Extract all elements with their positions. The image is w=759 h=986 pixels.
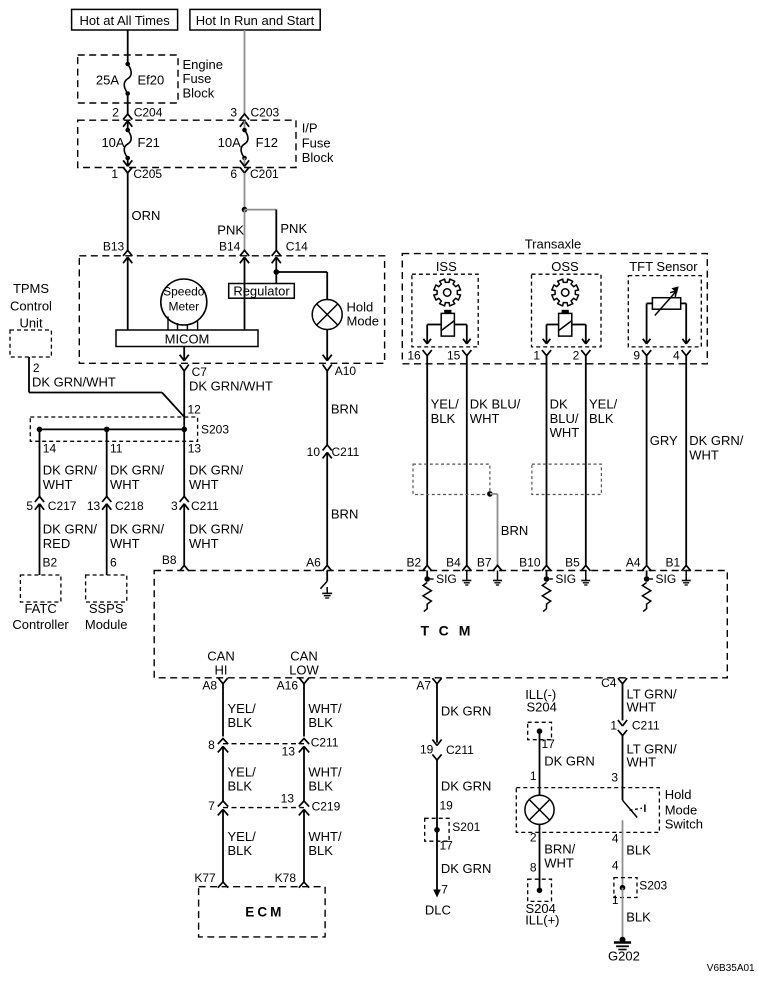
svg-text:YEL/: YEL/ [228, 829, 257, 844]
svg-text:YEL/: YEL/ [589, 397, 618, 412]
node Hot at All Times feed box [72, 9, 178, 30]
svg-text:WHT: WHT [550, 425, 580, 440]
wire TPMS pin 2 DK GRN/WHT [29, 357, 162, 393]
svg-text:G202: G202 [608, 949, 640, 964]
svg-text:13: 13 [87, 499, 101, 513]
svg-text:BLK: BLK [589, 411, 614, 426]
svg-text:WHT/: WHT/ [308, 701, 342, 716]
svg-text:A7: A7 [416, 679, 431, 693]
wire C218 to SSPS DK GRN/WHT [107, 504, 165, 575]
svg-text:16: 16 [407, 348, 421, 362]
svg-text:YEL/: YEL/ [228, 765, 257, 780]
node S203 tap 14 [37, 427, 43, 433]
svg-text:Engine: Engine [183, 57, 223, 72]
svg-text:Mode: Mode [347, 314, 380, 329]
svg-text:8: 8 [530, 861, 537, 875]
wire lamp to A10 [326, 330, 328, 361]
svg-text:B5: B5 [565, 556, 580, 570]
label CAN LOW [289, 649, 319, 678]
wire C211 to C219 WHT/BLK [304, 746, 342, 801]
svg-text:E: E [245, 905, 254, 920]
ground inside TCM at B7 [493, 571, 502, 586]
label TCM [421, 623, 471, 639]
wire ISS pin15 to TCM B4 DK BLU/WHT [467, 356, 521, 566]
connector C211 pins 8 and 13 [208, 736, 339, 759]
connector A10 [323, 355, 357, 378]
svg-text:C218: C218 [115, 499, 144, 513]
connector C219 pins 7 and 13 [208, 791, 341, 815]
connector TCM A16 [277, 678, 309, 692]
Engine Fuse Block dashed box [78, 55, 178, 103]
svg-text:A10: A10 [335, 364, 357, 378]
wire A8 to C211 YEL/BLK [223, 684, 256, 737]
OSS sensor wires to pins 1 and 2 [543, 325, 590, 344]
svg-text:ILL(+): ILL(+) [525, 913, 559, 928]
wire S203 to C217 DK GRN/WHT [40, 429, 98, 496]
wire C14 node to Hold Mode lamp [276, 272, 327, 300]
svg-text:4: 4 [612, 832, 619, 846]
svg-text:Hold: Hold [347, 300, 374, 315]
svg-text:1: 1 [612, 893, 619, 907]
svg-text:DK GRN: DK GRN [441, 861, 492, 876]
svg-text:BLK: BLK [308, 715, 333, 730]
connector ECM K78 [275, 871, 310, 888]
svg-text:C211: C211 [632, 719, 660, 733]
svg-text:C201: C201 [250, 167, 279, 181]
lamp illumination [525, 795, 554, 824]
wire PNK branch to C14 (gray horizontal) [245, 209, 277, 211]
label Hold Mode Switch [665, 787, 703, 832]
svg-text:12: 12 [188, 403, 202, 417]
TCM B10 SIG input resistor [542, 571, 576, 612]
module ECM dashed box [199, 887, 326, 937]
ground G202 [608, 937, 640, 964]
svg-text:C203: C203 [251, 106, 280, 120]
ISS gear icon [434, 279, 461, 306]
wire lamp to S204 lower BRN/WHT pin 2 pin 8 [530, 824, 576, 890]
svg-text:B14: B14 [219, 240, 241, 254]
svg-text:C: C [257, 905, 267, 920]
wire ISS pin16 to TCM B2 YEL/BLK [427, 356, 459, 566]
svg-text:Ef20: Ef20 [138, 73, 165, 88]
connector C211 pin 19 [420, 740, 474, 761]
connector pin 1 OSS [533, 348, 551, 362]
svg-text:DLC: DLC [425, 903, 451, 918]
svg-text:V6B35A01: V6B35A01 [707, 963, 755, 974]
connector TCM B4 [446, 556, 471, 571]
connector C211 pin 10 [307, 445, 360, 459]
svg-text:C7: C7 [192, 365, 208, 379]
wire branch down to C14 [276, 210, 307, 251]
wire S203 bus [40, 428, 185, 430]
svg-text:ORN: ORN [132, 208, 161, 223]
svg-text:8: 8 [208, 738, 215, 752]
svg-text:BLK: BLK [626, 843, 651, 858]
svg-text:SSPS: SSPS [89, 601, 124, 616]
svg-text:C211: C211 [191, 499, 219, 513]
svg-text:2: 2 [112, 106, 119, 120]
wire C211 to TCM B8 DK GRN/WHT [184, 504, 243, 566]
splice S204 lower dashed box [528, 879, 552, 901]
wire ORN C205 to B13 [128, 173, 161, 250]
wire from Hot In Run and Start to I/P Fuse Block (PNK, gray) [244, 30, 246, 115]
svg-text:C14: C14 [286, 240, 308, 254]
svg-text:Unit: Unit [19, 316, 43, 331]
connector TCM B2 [407, 556, 432, 571]
wire C217 to FATC DK GRN/RED [40, 504, 98, 575]
FATC Controller dashed box [12, 575, 69, 632]
svg-text:17: 17 [542, 737, 556, 751]
wire C211 to switch LT GRN/WHT pin 3 [611, 736, 677, 801]
svg-text:S203: S203 [201, 423, 229, 437]
TCM A4 SIG input resistor [642, 571, 676, 612]
svg-text:M: M [459, 623, 471, 639]
svg-text:Module: Module [85, 617, 128, 632]
svg-text:WHT: WHT [189, 536, 219, 551]
connector ECM K77 [194, 871, 228, 888]
svg-text:WHT/: WHT/ [308, 765, 342, 780]
svg-text:WHT/: WHT/ [308, 829, 342, 844]
svg-text:WHT: WHT [189, 477, 219, 492]
connector TCM C4 [601, 676, 627, 690]
wire A7 to C211 DK GRN [437, 684, 491, 743]
svg-text:CAN: CAN [207, 649, 234, 664]
svg-text:BLK: BLK [308, 779, 333, 794]
wire BRN to TCM B7 (gray) [490, 494, 528, 565]
node C14 branch [274, 269, 280, 275]
TPMS Control Unit label [10, 281, 52, 331]
wire PNK C201 to junction (gray) [244, 173, 246, 210]
connector pin 15 [447, 348, 471, 362]
svg-text:Block: Block [183, 85, 215, 100]
svg-text:2: 2 [33, 361, 40, 375]
svg-text:WHT: WHT [470, 411, 500, 426]
node S203 tap 13 [181, 427, 187, 433]
ISS pickup sensor [441, 310, 454, 336]
svg-text:4: 4 [673, 348, 680, 362]
label S204 ILL(+) [525, 901, 559, 928]
connector C205 pin 1 [111, 158, 162, 181]
svg-text:6: 6 [230, 167, 237, 181]
svg-text:WHT: WHT [689, 447, 719, 462]
OSS pickup sensor [559, 310, 572, 336]
svg-text:B2: B2 [43, 556, 58, 570]
svg-text:7: 7 [441, 883, 448, 897]
svg-text:DK GRN/: DK GRN/ [110, 522, 165, 537]
fuse F12 10A [218, 121, 278, 161]
svg-text:Switch: Switch [665, 817, 703, 832]
svg-text:6: 6 [110, 556, 117, 570]
svg-text:DK GRN/: DK GRN/ [43, 522, 98, 537]
label Engine Fuse Block [183, 57, 223, 100]
svg-text:TFT Sensor: TFT Sensor [629, 259, 698, 274]
connector TCM A7 [416, 678, 441, 692]
svg-text:19: 19 [440, 799, 454, 813]
wire C219 to ECM K77 YEL/BLK [223, 809, 256, 882]
svg-text:3: 3 [171, 499, 178, 513]
svg-text:DK GRN: DK GRN [544, 754, 595, 769]
svg-text:C4: C4 [601, 676, 617, 690]
svg-text:DK GRN/WHT: DK GRN/WHT [189, 379, 273, 394]
svg-text:WHT: WHT [627, 754, 657, 769]
svg-text:B1: B1 [666, 556, 681, 570]
svg-text:C211: C211 [332, 445, 360, 459]
svg-text:Controller: Controller [12, 617, 69, 632]
svg-text:BRN: BRN [331, 507, 358, 522]
svg-text:C211: C211 [311, 736, 339, 750]
svg-text:PNK: PNK [217, 223, 244, 238]
connector C203 pin 3 [230, 106, 279, 127]
svg-text:DK GRN/WHT: DK GRN/WHT [32, 375, 116, 390]
connector pin 4 TFT [673, 348, 691, 362]
svg-text:C217: C217 [48, 499, 77, 513]
connector pin 2 OSS [573, 348, 591, 362]
wire switch to S203 BLK pin 4 (gray) [612, 820, 651, 887]
fuse F21 10A [101, 121, 159, 161]
splice S203 dashed box [30, 417, 229, 441]
Speedo Meter circle [161, 279, 207, 325]
TCM B2 SIG input resistor [423, 571, 457, 612]
wire from Hot at All Times to Engine Fuse Block [127, 30, 129, 64]
svg-text:WHT: WHT [627, 699, 657, 714]
connector TCM A6 [306, 556, 332, 571]
connector pin 16 [407, 348, 431, 362]
connector C14 [272, 240, 308, 264]
connector TCM A8 [202, 678, 227, 692]
svg-text:DK BLU/: DK BLU/ [470, 397, 521, 412]
node S201 [434, 827, 440, 833]
wire C211 to C219 YEL/BLK [223, 746, 256, 801]
svg-text:Control: Control [10, 299, 52, 314]
svg-text:DK GRN/: DK GRN/ [189, 522, 244, 537]
connector C218 pin 13 [87, 496, 144, 513]
svg-text:1: 1 [533, 348, 540, 362]
svg-text:FATC: FATC [24, 601, 56, 616]
svg-text:B8: B8 [162, 553, 177, 567]
svg-text:Fuse: Fuse [183, 71, 212, 86]
svg-text:C: C [439, 623, 449, 639]
node S203 hold column [620, 885, 626, 891]
svg-text:1: 1 [610, 718, 617, 732]
wire S201 to DLC DK GRN [437, 830, 491, 891]
svg-text:BLK: BLK [431, 411, 456, 426]
wire PNK junction down to B14 (gray) [217, 210, 244, 251]
svg-text:A6: A6 [306, 556, 321, 570]
connector TCM B1 [666, 556, 691, 571]
wire S203 to C211 DK GRN/WHT [184, 429, 243, 496]
wire C14 node to Regulator [275, 272, 277, 284]
svg-text:Block: Block [302, 150, 334, 165]
svg-text:A8: A8 [202, 679, 217, 693]
svg-text:S204: S204 [527, 700, 557, 715]
lamp Hold Mode [312, 300, 379, 330]
svg-text:LOW: LOW [289, 663, 319, 678]
wire C211 to S201 DK GRN [437, 760, 491, 830]
svg-text:OSS: OSS [551, 259, 579, 274]
svg-text:WHT: WHT [110, 536, 140, 551]
svg-text:YEL/: YEL/ [431, 397, 460, 412]
svg-text:1: 1 [111, 167, 118, 181]
Regulator box [229, 283, 295, 298]
connector C204 pin 2 [112, 106, 163, 127]
svg-text:HI: HI [215, 663, 228, 678]
label DLC [425, 903, 451, 918]
splice S201 dashed box [425, 818, 481, 841]
svg-text:Speedo: Speedo [163, 285, 205, 299]
I/P Fuse Block dashed box [78, 120, 296, 167]
svg-text:7: 7 [208, 799, 215, 813]
svg-text:C219: C219 [312, 800, 341, 814]
svg-text:DK GRN: DK GRN [441, 704, 492, 719]
svg-text:YEL/: YEL/ [228, 701, 257, 716]
svg-text:10A: 10A [218, 135, 241, 150]
svg-text:Transaxle: Transaxle [525, 237, 582, 252]
svg-text:A16: A16 [277, 679, 299, 693]
svg-text:13: 13 [282, 745, 296, 759]
wire TFT pin4 to TCM B1 DK GRN/WHT [686, 356, 744, 566]
svg-text:BLU/: BLU/ [550, 411, 579, 426]
fuse Ef20 25A [96, 62, 164, 96]
svg-text:S203: S203 [639, 879, 667, 893]
TPMS Control Unit dashed box [10, 330, 51, 357]
svg-text:I/P: I/P [302, 121, 318, 136]
svg-text:T: T [421, 623, 430, 639]
TFT sensor wires to pins 9 and 4 [643, 303, 690, 343]
connector pass-through dashed box left [413, 464, 490, 494]
svg-text:25A: 25A [96, 73, 119, 88]
node S204 lower [537, 888, 543, 894]
svg-text:Meter: Meter [168, 300, 199, 314]
node BRN tap [487, 491, 493, 497]
svg-text:14: 14 [43, 442, 57, 456]
wire C211 to TCM A6 BRN [327, 452, 358, 565]
wire OSS pin1 to TCM B10 DK BLU/WHT [547, 356, 580, 566]
wire Ef20 to connector C204 [127, 94, 129, 115]
node S204 upper [537, 728, 543, 734]
label ECM [245, 905, 281, 920]
wire A16 to C211 WHT/BLK [304, 684, 342, 737]
wire S203 to G202 BLK pin 1 (gray) [612, 888, 651, 940]
label ILL(-) S204 [525, 687, 557, 715]
TFT variable resistor symbol [652, 286, 680, 315]
svg-text:DK GRN/: DK GRN/ [110, 463, 165, 478]
svg-text:19: 19 [420, 743, 434, 757]
label I/P Fuse Block [302, 121, 334, 166]
ground inside TCM at B5 [581, 571, 590, 586]
svg-text:3: 3 [230, 106, 237, 120]
splice S203 dashed box hold column [614, 878, 668, 898]
wire C14 to node [275, 257, 277, 272]
label diagram id V6B35A01 [707, 963, 755, 974]
svg-text:M: M [270, 905, 281, 920]
Transaxle dashed box [402, 237, 707, 364]
svg-text:GRY: GRY [650, 433, 678, 448]
svg-text:SIG: SIG [555, 572, 576, 586]
svg-text:B10: B10 [519, 556, 541, 570]
arrow to DLC pin 7 [433, 883, 448, 898]
svg-text:TPMS: TPMS [13, 281, 49, 296]
wire OSS pin2 to TCM B5 YEL/BLK [586, 356, 618, 566]
node S203 tap 11 [104, 427, 110, 433]
instrument cluster dashed box [79, 256, 384, 363]
svg-text:2: 2 [573, 348, 580, 362]
svg-text:B4: B4 [446, 556, 461, 570]
svg-text:MICOM: MICOM [165, 332, 210, 347]
svg-text:DK GRN: DK GRN [441, 779, 492, 794]
wire A10 to C211 BRN [327, 371, 358, 445]
svg-text:BLK: BLK [308, 843, 333, 858]
svg-text:5: 5 [26, 499, 33, 513]
label CAN HI [207, 649, 234, 678]
connector B14 [219, 240, 249, 264]
MICOM box [116, 330, 258, 347]
connector C211 pin 3 [171, 496, 219, 513]
svg-text:Hold: Hold [665, 787, 692, 802]
connector C201 pin 6 [230, 158, 279, 181]
svg-text:DK GRN/: DK GRN/ [43, 463, 98, 478]
connector B13 [103, 240, 132, 264]
connector TCM A4 [626, 556, 651, 571]
svg-text:C204: C204 [134, 106, 163, 120]
svg-text:BRN/: BRN/ [544, 842, 575, 857]
wire C7 down to S203 [184, 371, 273, 429]
svg-text:PNK: PNK [280, 221, 307, 236]
svg-text:CAN: CAN [290, 649, 317, 664]
svg-text:Regulator: Regulator [233, 283, 290, 298]
connector TCM B10 [519, 556, 551, 571]
connector C211 pin 1 [610, 718, 660, 735]
svg-text:Fuse: Fuse [302, 135, 331, 150]
svg-text:WHT: WHT [544, 856, 574, 871]
svg-text:DK GRN/: DK GRN/ [189, 463, 244, 478]
svg-text:Mode: Mode [665, 803, 698, 818]
ground inside TCM at B4 [462, 571, 471, 586]
svg-text:3: 3 [611, 771, 618, 785]
module TCM dashed box [154, 571, 727, 678]
svg-text:BLK: BLK [626, 910, 651, 925]
TFT Sensor dashed box [628, 259, 701, 347]
svg-text:Hot In Run and Start: Hot In Run and Start [196, 13, 315, 28]
svg-text:K77: K77 [194, 871, 216, 885]
svg-text:BRN: BRN [501, 523, 528, 538]
connector TCM B5 [565, 556, 590, 571]
svg-text:B13: B13 [103, 240, 125, 254]
ISS dashed box [412, 259, 478, 347]
connector C217 pin 5 [26, 496, 77, 513]
connector pin 9 [633, 348, 651, 362]
svg-text:11: 11 [110, 442, 123, 456]
ground inside TCM at A6 [320, 571, 332, 599]
wire S204 to lamp DK GRN pin 17 pin 1 [530, 731, 595, 795]
wire C4 to C211 LT GRN/WHT [623, 684, 677, 721]
wire S203 to C218 DK GRN/WHT [107, 429, 165, 496]
svg-text:K78: K78 [275, 871, 297, 885]
wire diagonal to splice S203 [162, 393, 184, 417]
svg-text:BLK: BLK [228, 843, 253, 858]
svg-text:DK GRN/: DK GRN/ [689, 433, 744, 448]
OSS gear icon [552, 279, 579, 306]
svg-text:10A: 10A [101, 135, 124, 150]
svg-text:DK: DK [550, 397, 568, 412]
node Hot In Run and Start feed box [190, 9, 320, 30]
svg-text:2: 2 [530, 831, 537, 845]
wire B14 through Regulator to MICOM [244, 257, 246, 330]
connector TCM B7 [477, 556, 502, 571]
svg-text:4: 4 [612, 859, 619, 873]
svg-text:ISS: ISS [436, 259, 457, 274]
svg-text:C211: C211 [446, 743, 474, 757]
svg-text:1: 1 [530, 769, 537, 783]
